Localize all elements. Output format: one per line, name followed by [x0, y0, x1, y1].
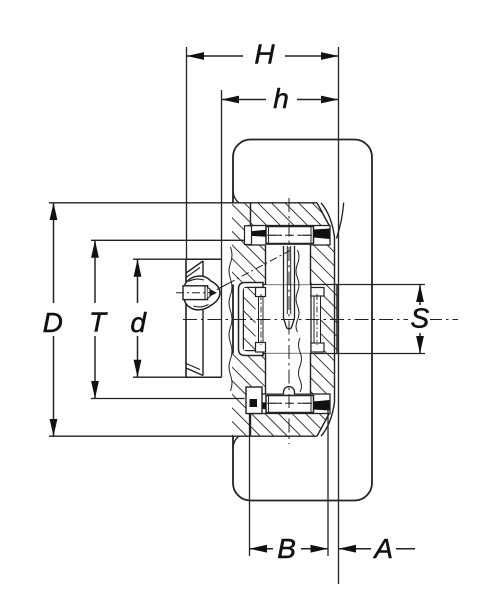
bottom bearing seal right [314, 400, 330, 411]
top bearing seal right [314, 229, 330, 240]
extension line H left [186, 47, 188, 259]
svg-text:h: h [273, 83, 289, 114]
dimension D [43, 203, 63, 438]
svg-text:H: H [254, 39, 275, 70]
nipple axis [176, 292, 216, 294]
hub boss bottom hatched [232, 354, 335, 437]
axle pin slot [284, 246, 295, 329]
bottom bearing cavity [248, 394, 330, 414]
wheel outline [233, 140, 372, 501]
bore edges [266, 245, 311, 394]
svg-text:A: A [372, 533, 393, 564]
extension line h left [221, 90, 223, 377]
hub left step top [245, 226, 252, 245]
extension line d bottom [133, 376, 186, 378]
svg-text:S: S [410, 303, 429, 334]
extension line B left [249, 414, 251, 556]
dimension S [410, 285, 429, 354]
extension line right common [338, 47, 340, 584]
dimension B [250, 533, 329, 564]
slot centerline left [260, 294, 262, 345]
axle tube right end hatched [321, 285, 338, 354]
extension line D bottom [49, 435, 317, 437]
hub boss top hatched [232, 203, 335, 285]
wavy break line bore upper [296, 250, 299, 332]
wavy break line bore lower [299, 338, 302, 392]
rim-boss fillet bottom-left [233, 436, 239, 448]
extension line D top [49, 202, 317, 204]
dimension A [339, 533, 416, 564]
dimension d [130, 259, 147, 377]
roller top centerline [267, 234, 312, 236]
bottom bearing seal left [248, 402, 266, 409]
roller bottom centerline [267, 402, 312, 404]
svg-text:T: T [89, 307, 108, 338]
tube right inner blocks [311, 285, 324, 354]
svg-text:D: D [43, 307, 63, 338]
top roller bearing [266, 227, 314, 244]
top bearing seal left [248, 230, 266, 237]
flange disc [186, 259, 222, 377]
dimension T [89, 240, 108, 398]
rim-boss fillet top-left [233, 191, 239, 203]
top bearing cavity [248, 226, 330, 246]
slot centerline right [316, 294, 318, 345]
wavy break line web [229, 247, 232, 391]
dimension h [222, 83, 339, 114]
hub vertical centerline [288, 198, 290, 444]
extension line T bottom [91, 398, 245, 400]
wheel rim bore line right [321, 203, 344, 437]
extension line B right [327, 408, 329, 556]
pin bottom cap [284, 387, 295, 395]
extension line d top [133, 258, 186, 260]
svg-text:B: B [277, 533, 296, 564]
wheel axis centerline [183, 319, 408, 321]
extension line T top [91, 239, 245, 241]
svg-text:d: d [130, 307, 147, 338]
tube left inner blocks [256, 288, 266, 353]
grease channel C-bracket [239, 283, 264, 356]
bottom roller bearing [266, 396, 314, 413]
dimension H [187, 39, 339, 70]
boss outline lines [251, 203, 426, 436]
hub left step block bottom [246, 387, 262, 414]
grease nipple [183, 276, 228, 310]
bore column white [266, 245, 310, 285]
grease path diagonal [228, 251, 291, 284]
